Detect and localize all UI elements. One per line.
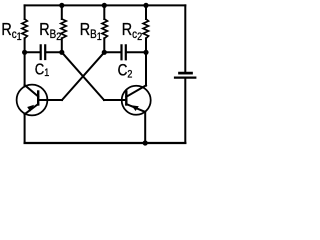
junction node C xyxy=(143,50,148,55)
junction dot top RB2 xyxy=(59,3,64,8)
junction node B xyxy=(102,50,107,55)
wire RB1 to node B xyxy=(103,38,105,52)
wire Q2 emitter to bottom rail xyxy=(144,112,146,143)
arrowhead Q2 emitter xyxy=(131,105,139,111)
resistor Rc2 xyxy=(143,19,148,38)
wire right rail lower xyxy=(184,79,186,143)
wire Q1 collector vertical xyxy=(24,52,26,85)
svg-text:Rc1: Rc1 xyxy=(1,21,22,44)
svg-text:Rc2: Rc2 xyxy=(122,21,143,44)
junction dot top RB1 xyxy=(102,3,107,8)
wire RB2 branch upper xyxy=(61,5,63,19)
battery positive long plate xyxy=(175,76,195,78)
wire Q2 base lead xyxy=(104,99,126,101)
transistor Q1 xyxy=(17,85,48,116)
wire C2 left from node B xyxy=(104,51,120,53)
arrowhead Q1 emitter xyxy=(27,105,34,112)
junction dot Q2 emitter xyxy=(143,140,148,145)
label Rc2 xyxy=(122,21,143,44)
capacitor C2 xyxy=(122,45,126,59)
wire RB1 branch upper xyxy=(103,5,105,19)
wire top rail xyxy=(25,4,186,6)
wire Q1 emitter to bottom rail xyxy=(24,114,26,143)
junction dot Rc1/C1 xyxy=(22,50,27,55)
resistor RB1 xyxy=(102,19,107,38)
wire RB2 to node A xyxy=(61,38,63,52)
wire cross-couple node B to Q1 base xyxy=(62,52,104,100)
wire Rc2 to node C xyxy=(145,38,147,52)
label C2 xyxy=(118,61,133,80)
wire C1 right to node A xyxy=(46,51,61,53)
label Rc1 xyxy=(1,21,22,44)
junction dot top Rc2 xyxy=(143,3,148,8)
resistor Rc1 xyxy=(22,19,27,38)
wire bottom rail xyxy=(25,142,186,144)
svg-text:RB2: RB2 xyxy=(39,21,61,44)
resistor RB2 xyxy=(61,19,66,38)
junction node A xyxy=(59,50,64,55)
wire left branch upper xyxy=(24,5,26,19)
wire Rc1 to C1 node xyxy=(24,38,26,52)
svg-text:RB1: RB1 xyxy=(80,21,102,44)
wire C1 left xyxy=(25,51,40,53)
label RB2 xyxy=(39,21,61,44)
svg-text:C1: C1 xyxy=(35,61,50,79)
wire Rc2 branch upper xyxy=(145,5,147,19)
capacitor C1 xyxy=(41,45,46,59)
wire C2 right to node C xyxy=(127,51,146,53)
wire Q1 base lead xyxy=(38,99,62,101)
wire cross-couple node A to Q2 base xyxy=(62,52,104,100)
label C1 xyxy=(35,61,50,79)
battery negative short plate xyxy=(180,72,192,75)
wire right rail upper xyxy=(184,5,186,72)
label RB1 xyxy=(80,21,102,44)
wire Q2 collector vertical xyxy=(145,52,147,85)
transistor Q2 xyxy=(122,85,151,114)
svg-text:C2: C2 xyxy=(118,61,133,80)
